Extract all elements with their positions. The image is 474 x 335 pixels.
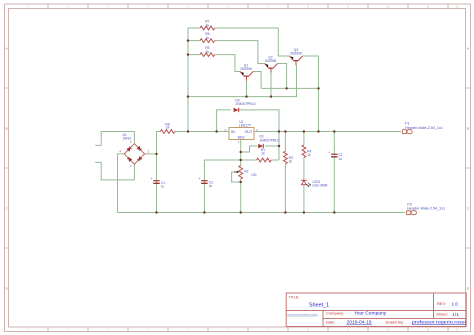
diode D2 <box>258 134 280 148</box>
svg-text:Sheet:: Sheet: <box>436 312 448 317</box>
resistor R6 <box>200 32 215 42</box>
wire C3 branch <box>204 160 240 213</box>
resistor R1 <box>257 148 272 162</box>
svg-text:LED-3MM: LED-3MM <box>313 184 328 188</box>
wire R6 right to Q2 emitter <box>215 41 265 64</box>
bridge rectifier D1 <box>119 133 149 168</box>
svg-text:LM317T: LM317T <box>239 124 251 128</box>
wire pot bottom to ground <box>240 179 242 212</box>
header P3 <box>407 202 446 214</box>
junction R3 top <box>284 130 286 132</box>
junction R4 top <box>303 130 305 132</box>
junction D2 cathode <box>278 145 280 147</box>
svg-text:2N2906: 2N2906 <box>290 52 302 56</box>
wire R3 bottom <box>284 164 286 213</box>
svg-text:IN: IN <box>231 130 235 134</box>
junction R3 ground <box>284 211 286 213</box>
svg-text:Drawn By:: Drawn By: <box>386 319 404 324</box>
junction C1 ground <box>155 211 157 213</box>
potentiometer R2 <box>234 165 257 179</box>
svg-text:1u: 1u <box>161 185 165 189</box>
wire Q1 base down <box>246 81 248 97</box>
svg-text:R2: R2 <box>244 169 248 173</box>
svg-text:1k: 1k <box>307 153 311 157</box>
junction collector vertical at VOUT <box>317 130 319 132</box>
wire left resistor rail <box>188 28 200 132</box>
svg-text:Sheet_1: Sheet_1 <box>309 303 329 309</box>
wire D9 left branch <box>217 110 231 132</box>
svg-text:1k: 1k <box>206 36 210 40</box>
svg-text:A: A <box>467 47 469 51</box>
wire R4 to LED <box>303 158 305 181</box>
wire OUT rail to P1 <box>254 131 401 133</box>
junction C2 top <box>333 130 335 132</box>
capacitor C1 <box>151 177 166 189</box>
junction base rail left <box>187 95 189 97</box>
svg-text:B: B <box>6 127 8 131</box>
junction Q2 collector rail <box>285 87 287 89</box>
junction R6 left <box>187 39 189 41</box>
junction R2 ground <box>240 211 242 213</box>
wire R3 top <box>284 132 286 152</box>
svg-text:+: + <box>328 151 330 155</box>
capacitor C2 <box>328 151 342 161</box>
svg-text:C: C <box>467 207 469 211</box>
wire bridge left to ground <box>118 154 125 213</box>
svg-text:Your Company: Your Company <box>354 311 387 317</box>
title block <box>286 293 466 327</box>
wire input stub AC2 <box>95 162 134 180</box>
svg-text:C: C <box>6 207 8 211</box>
svg-text:Header-Male-2.54_1x1: Header-Male-2.54_1x1 <box>407 206 445 210</box>
resistor R3 <box>284 151 293 164</box>
wire R6 left lead <box>188 40 200 42</box>
wire R1 right lead <box>271 159 279 161</box>
svg-text:1N4007PRLD: 1N4007PRLD <box>235 102 256 106</box>
svg-text:1u: 1u <box>209 184 213 188</box>
svg-text:1.0: 1.0 <box>452 301 459 306</box>
wire D9 right branch <box>238 110 279 132</box>
LED1 <box>301 180 327 188</box>
resistor R8 <box>160 122 175 133</box>
svg-text:1k: 1k <box>206 23 210 27</box>
junction ADJ / R1 left <box>240 159 242 161</box>
wire ADJ down <box>240 140 242 166</box>
junction ADJ / D2 anode <box>240 151 242 153</box>
wire base rail to Q3 base <box>188 65 297 96</box>
wire Q2 collector to collector rail <box>278 64 287 89</box>
junction D9 anode branch <box>215 130 217 132</box>
wire LED to ground <box>303 185 305 213</box>
wire Q3 collector down to OUT rail <box>303 56 319 132</box>
svg-text:REV:: REV: <box>437 301 446 306</box>
wire R5 left lead <box>188 54 200 56</box>
wire C1 branch <box>156 154 158 213</box>
svg-text:easyeda.com/professor.rogerio: easyeda.com/professor.rogerio <box>287 312 318 316</box>
wire R8 right to LM317 IN <box>175 131 229 133</box>
wire collector rail <box>261 87 318 89</box>
wire VIN-RAW up to R8 left <box>157 132 161 154</box>
regulator U1 LM317T <box>225 120 259 144</box>
resistor R7 <box>200 20 215 30</box>
junction Q2 base <box>270 95 272 97</box>
resistor R4 <box>302 145 311 158</box>
svg-text:B: B <box>467 127 469 131</box>
wire bridge top pin <box>133 142 135 144</box>
transistor Q3 <box>290 48 303 65</box>
wire D2 branch <box>241 146 279 152</box>
svg-text:1N4007PRLD: 1N4007PRLD <box>259 138 280 142</box>
svg-text:D: D <box>467 287 469 291</box>
svg-text:1k: 1k <box>166 126 170 130</box>
junction R5 left <box>187 53 189 55</box>
wire bridge bottom pin <box>133 164 135 167</box>
svg-text:Company:: Company: <box>326 310 344 315</box>
wire R7 right to Q3 emitter <box>215 28 290 56</box>
wire C2 branch <box>333 132 335 213</box>
wire Q2 base down <box>270 73 272 97</box>
svg-text:professor.rogerio.rossi: professor.rogerio.rossi <box>412 320 466 325</box>
wire R4 top <box>303 132 305 145</box>
header P1 <box>402 122 443 134</box>
svg-text:+: + <box>151 177 153 181</box>
capacitor C3 <box>198 177 213 188</box>
svg-text:2N2906: 2N2906 <box>240 67 252 71</box>
svg-text:1k: 1k <box>289 159 293 163</box>
resistor R5 <box>200 46 215 56</box>
svg-text:1/1: 1/1 <box>452 312 459 317</box>
wire ground rail <box>118 212 405 214</box>
wire bridge right to node VIN-RAW <box>144 153 156 155</box>
junction Q1 base <box>245 95 247 97</box>
svg-text:Header-Male-2.54_1x1: Header-Male-2.54_1x1 <box>405 126 443 130</box>
transistor Q2 <box>265 55 278 72</box>
wire R5 right to Q1 emitter <box>215 55 240 72</box>
junction R8 right / node VIN <box>187 130 189 132</box>
svg-text:D: D <box>6 287 8 291</box>
wire Q1 collector to collector rail <box>253 72 261 89</box>
junction LED1 ground <box>303 211 305 213</box>
junction bridge positive output <box>155 153 157 155</box>
svg-text:A: A <box>6 47 8 51</box>
junction C3 ground <box>203 211 205 213</box>
svg-text:Date:: Date: <box>326 319 336 324</box>
svg-text:1k: 1k <box>206 50 210 54</box>
diode D9 <box>234 98 257 112</box>
wire D2-R1 vertical <box>278 132 280 161</box>
svg-text:OUT: OUT <box>245 130 253 134</box>
svg-text:+: + <box>198 177 200 181</box>
junction pot wiper tie <box>240 181 242 183</box>
wire pot wiper tie <box>232 172 241 182</box>
junction collector rail to OUT <box>317 87 319 89</box>
svg-text:1k: 1k <box>261 152 265 156</box>
junction C2 ground <box>333 211 335 213</box>
junction D9 cathode / node VOUT <box>278 130 280 132</box>
transistor Q1 <box>240 63 253 80</box>
svg-text:TITLE:: TITLE: <box>289 295 300 299</box>
svg-text:100: 100 <box>251 173 257 177</box>
wire R1 left lead <box>241 159 257 161</box>
svg-text:1u: 1u <box>338 157 342 161</box>
svg-text:2N2906: 2N2906 <box>265 59 277 63</box>
wire input stub AC1 <box>95 132 134 146</box>
